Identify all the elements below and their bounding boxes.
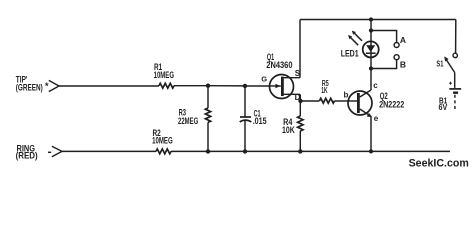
wire Q1 drain down to node [299,94,301,101]
wire drain node to R5 [300,100,319,102]
input terminal RING (RED) [16,144,62,161]
node top rail / LED branch [369,17,373,21]
svg-text:SeekIC.com: SeekIC.com [409,157,469,169]
svg-text:6V: 6V [439,103,448,112]
node bottom rail / R4 [298,149,302,153]
wire R3 node to C1 node [208,85,245,87]
svg-text:2N4360: 2N4360 [266,60,292,70]
svg-text:B: B [400,59,406,69]
svg-text:G: G [261,75,267,84]
wire switch to battery [454,73,456,88]
wire node to terminal A [371,31,397,43]
svg-text:10MEG: 10MEG [152,135,173,145]
battery B1 [439,82,462,113]
capacitor C1 [240,86,267,151]
wire top rail to switch S1 [455,20,457,54]
wire RING arrow to R2 [62,150,156,152]
node LED cathode / B branch [369,66,373,70]
svg-text:(GREEN): (GREEN) [16,82,43,92]
top rail wire [300,19,456,21]
svg-text:2N2222: 2N2222 [379,99,404,109]
terminal A [394,43,399,48]
svg-text:*: * [45,81,49,91]
resistor R2 [152,128,173,154]
switch S1 [436,53,457,72]
wire Q2 emitter to bottom rail [370,116,372,151]
node bottom rail / R3 [206,149,210,153]
svg-text:LED1: LED1 [341,49,359,59]
node TIP/C1 junction [243,84,247,88]
node bottom rail / Q2 emitter [369,149,373,153]
svg-text:1K: 1K [321,86,327,95]
node TIP/R3 junction [206,84,210,88]
svg-text:10K: 10K [282,125,295,135]
resistor R5 [320,79,335,103]
svg-text:22MEG: 22MEG [178,116,198,126]
wire TIP arrow to R1 [59,85,159,87]
resistor R4 [282,101,303,151]
svg-text:b: b [344,91,349,100]
svg-text:S1: S1 [436,59,443,68]
bottom rail wire [171,150,450,152]
LED LED1 [341,31,379,59]
node Q1 drain / R4 / R5 junction [298,99,302,103]
svg-text:.015: .015 [253,116,267,126]
svg-text:e: e [374,114,379,123]
wire C1 node to Q1 gate [245,85,269,87]
node bottom rail / C1 [243,149,247,153]
svg-text:c: c [373,81,378,90]
svg-text:(RED): (RED) [16,150,38,160]
wire Q1 source to top rail [299,20,301,78]
resistor R3 [178,86,211,152]
wire top rail through LED to Q2 collector [370,20,372,91]
transistor Q2 [348,90,405,117]
wire R1 to R3 node [174,85,208,87]
terminal B [394,55,399,60]
resistor R1 [154,62,174,88]
JFET Q1 [266,52,300,98]
svg-text:A: A [400,35,406,45]
input terminal TIP' (GREEN) [16,74,59,92]
wire R5 to Q2 base [335,100,348,102]
node LED anode / terminal A branch [369,28,373,32]
svg-text:10MEG: 10MEG [154,70,174,80]
wire terminal B to LED cathode node [371,60,397,69]
